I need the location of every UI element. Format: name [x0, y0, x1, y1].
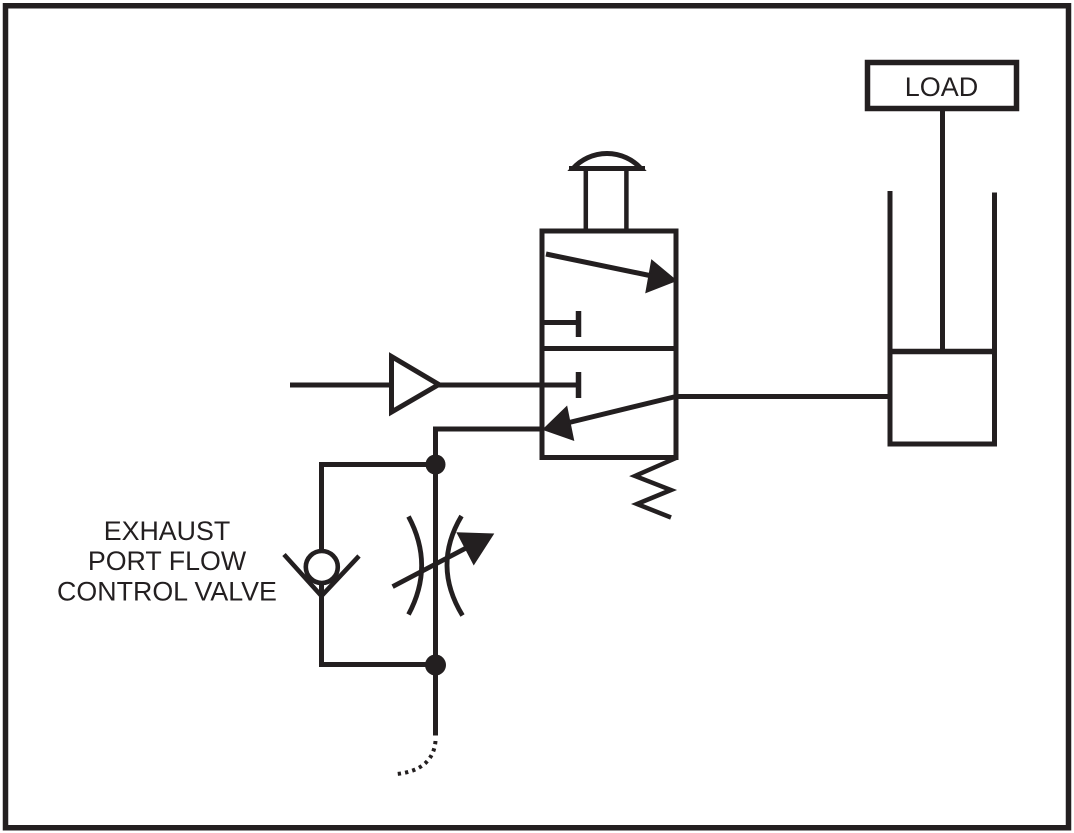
3/2 valve body	[542, 231, 676, 458]
label: exhaust port flow control valve	[57, 516, 277, 606]
valve flow arrow (bottom position)	[544, 397, 676, 440]
svg-text:PORT FLOW: PORT FLOW	[88, 546, 247, 576]
blocked port T (bottom position)	[542, 372, 579, 398]
svg-text:EXHAUST: EXHAUST	[104, 516, 231, 546]
supply source triangle	[392, 357, 439, 413]
valve flow arrow (top position)	[546, 254, 676, 292]
check valve bypass wire	[322, 465, 436, 665]
wire exhaust port to flow control line	[436, 429, 543, 736]
piston rod	[940, 108, 945, 354]
dotted exhaust continuation	[397, 741, 436, 774]
load box	[868, 63, 1017, 109]
node junction top	[426, 455, 446, 475]
blocked port T (top position)	[542, 311, 579, 337]
supply line	[290, 383, 542, 388]
node junction bottom	[425, 655, 446, 676]
return spring	[635, 458, 676, 518]
check valve	[284, 551, 359, 596]
cylinder	[888, 191, 998, 444]
push button actuator	[569, 153, 645, 231]
wire valve outlet to cylinder	[676, 394, 890, 399]
svg-text:LOAD: LOAD	[905, 72, 979, 102]
svg-text:CONTROL VALVE: CONTROL VALVE	[57, 576, 277, 606]
flow control valve	[393, 516, 493, 616]
